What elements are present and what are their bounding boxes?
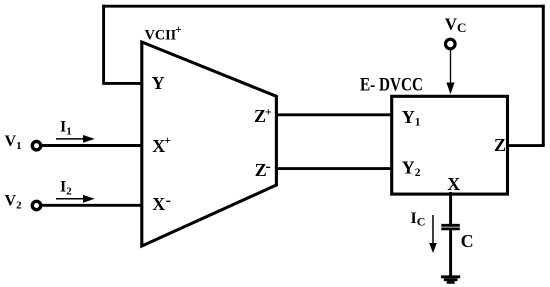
- block U2 E-DVCC (rectangle): [392, 96, 508, 194]
- arrow I1 current: [56, 135, 95, 143]
- svg-text:E- DVCC: E- DVCC: [360, 76, 423, 96]
- label X- pin: [152, 192, 171, 214]
- wire feedback top horizontal (Z to Y loop): [102, 5, 545, 8]
- terminal VC (control circle): [446, 39, 456, 49]
- wire V2 to X- terminal: [42, 204, 144, 207]
- svg-text:X: X: [447, 174, 460, 194]
- svg-text:X: X: [152, 194, 165, 214]
- wire V1 to X+ terminal: [42, 144, 144, 147]
- wire into Y terminal of U1: [102, 82, 143, 85]
- op-amp style block U1 VCII+ (trapezoid): [142, 42, 277, 246]
- terminal V1 (input circle): [32, 142, 40, 150]
- wire Z+ to Y1: [275, 113, 393, 116]
- arrow VC control into U2: [446, 49, 454, 94]
- label X+ pin: [152, 133, 171, 156]
- label Z- pin: [255, 158, 271, 180]
- svg-text:-: -: [265, 158, 270, 175]
- svg-text:+: +: [164, 133, 171, 147]
- svg-text:VCII: VCII: [145, 28, 177, 44]
- wire Z output of U2 to feedback: [506, 144, 544, 147]
- label Z+ pin: [254, 104, 272, 126]
- svg-text:+: +: [175, 24, 182, 36]
- terminal V2 (input circle): [32, 201, 40, 209]
- svg-text:Y: Y: [152, 73, 165, 93]
- wire feedback left vertical: [102, 5, 105, 84]
- wire X terminal down to capacitor: [449, 192, 452, 224]
- wire capacitor to ground: [449, 230, 452, 276]
- svg-text:C: C: [461, 231, 474, 251]
- arrow IC current: [429, 215, 437, 253]
- svg-text:+: +: [265, 104, 272, 118]
- svg-text:-: -: [166, 192, 171, 209]
- arrow I2 current: [56, 195, 95, 203]
- wire feedback right vertical: [542, 5, 545, 146]
- wire Z- to Y2: [275, 167, 393, 170]
- label VCII+: [145, 24, 182, 44]
- ground: [441, 277, 460, 283]
- svg-text:Z: Z: [494, 135, 506, 155]
- capacitor C: [441, 225, 460, 229]
